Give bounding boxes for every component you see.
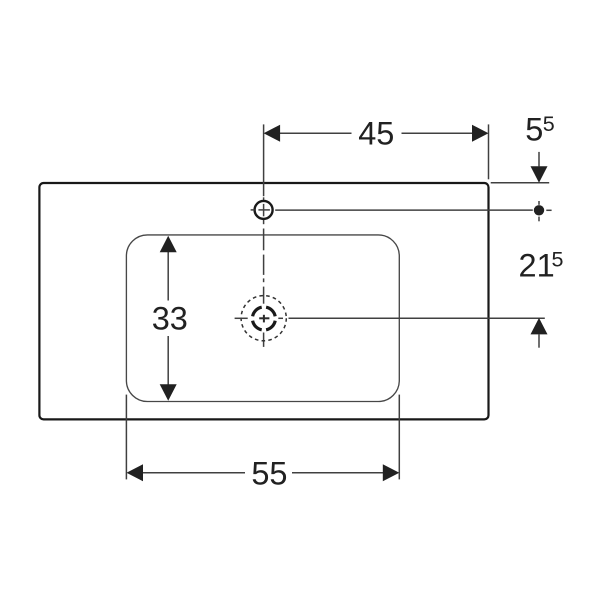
dim 45 line right segment [402,132,475,134]
reference dot tick marks [539,201,552,221]
dim 45 right arrowhead [472,125,489,142]
washbasin outer outline [39,183,488,419]
reference dot on tap hole line [534,205,544,215]
drain hole arcs [253,307,276,330]
tap hole circle [255,201,273,219]
drain crosshair horizontal dashes [235,317,248,319]
dim 45 line left segment [278,132,352,134]
dim 33 top arrowhead [160,236,177,253]
drain center plus [259,315,269,323]
drain dashed circle [241,296,286,341]
dim 45 extension line right [488,124,490,179]
svg-text:45: 45 [358,115,394,151]
svg-text:33: 33 [152,300,188,336]
dim 33 line upper segment [167,250,169,301]
svg-text:5: 5 [543,112,555,136]
dim 55 extension line left [125,395,127,480]
dim 5.5 down arrowhead [531,166,548,183]
svg-text:5: 5 [525,112,543,148]
leader line from tap hole to right dot [275,209,533,211]
tap hole crosshair horizontal [251,209,270,211]
dim 33 bottom arrowhead [160,384,177,401]
basin inner bowl outline [126,235,399,402]
svg-text:5: 5 [552,248,564,272]
dim 55 left arrowhead [127,464,144,481]
dim 5.5 arrow stub [538,152,540,167]
dim 21.5 arrow stub [538,334,540,347]
dim 33 line lower segment [167,336,169,387]
leader line from drain to right arrow [278,317,283,319]
dim 45 left arrowhead [264,125,281,142]
svg-text:21: 21 [519,247,555,283]
dim 55 right arrowhead [383,464,400,481]
dim 21.5 up arrowhead [531,318,548,335]
dim 55 extension line right [398,395,400,480]
dim 55 line right segment [292,472,385,474]
center line vertical (tap hole to drain) [263,124,265,347]
svg-text:55: 55 [251,456,287,492]
dim 5.5 extension line at basin top edge [491,182,550,184]
dim 55 line left segment [141,472,245,474]
